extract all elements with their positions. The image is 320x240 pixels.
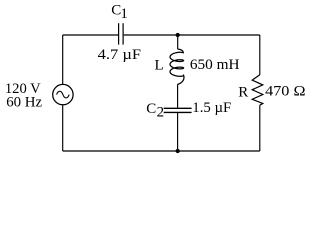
source V1 sine symbol [57,91,70,98]
junction node bottom [176,149,180,153]
svg-text:C: C [146,101,156,117]
wire left rail lower [62,105,64,151]
svg-text:1: 1 [120,6,128,22]
svg-text:60 Hz: 60 Hz [6,95,42,111]
capacitor C2 plates [164,108,192,112]
wire right rail upper [259,35,261,75]
wire middle branch bottom [177,113,179,151]
wire bottom rail [63,150,260,152]
source V1 circle [53,84,73,104]
wire middle branch top [177,35,179,49]
wire right rail lower [259,105,261,151]
inductor L coil [170,49,184,84]
wire top-right: C1 to right rail [124,34,260,36]
svg-text:470 Ω: 470 Ω [265,84,305,100]
svg-text:1.5 µF: 1.5 µF [192,100,231,116]
capacitor C1 plates [119,23,124,44]
svg-text:4.7 µF: 4.7 µF [98,47,141,63]
junction node top [176,33,180,37]
svg-text:2: 2 [157,105,165,121]
svg-text:650 mH: 650 mH [190,57,240,73]
wire middle branch mid [177,84,179,108]
resistor R zigzag [252,75,263,105]
svg-text:R: R [238,85,248,101]
wire top-left: left rail to C1 [63,34,118,36]
svg-text:L: L [155,57,164,73]
wire left rail upper [62,35,64,84]
